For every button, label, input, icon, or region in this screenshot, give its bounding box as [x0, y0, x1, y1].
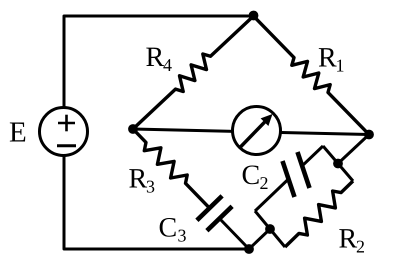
svg-text:2: 2: [260, 173, 269, 193]
galvanometer needle arrowhead: [261, 114, 273, 126]
node top: [249, 11, 259, 21]
svg-text:3: 3: [146, 177, 155, 197]
resistor R3: [133, 129, 210, 208]
capacitor C3 plate 2: [207, 206, 232, 230]
source E minus sign: [57, 144, 76, 147]
wire bottom node to parallel block: [249, 229, 270, 249]
galvanometer needle: [239, 121, 266, 148]
capacitor C3 plate 1: [197, 196, 222, 220]
resistor R2: [285, 181, 353, 247]
resistor R1: [254, 16, 370, 135]
wire top from source to top node: [64, 16, 254, 108]
junction parallel right: [333, 159, 343, 169]
source E plus sign: [58, 122, 75, 125]
resistor R4: [133, 16, 254, 129]
wire bottom from source to bottom node: [64, 156, 249, 250]
svg-text:R: R: [129, 164, 148, 195]
wire bridge middle horizontal: [133, 129, 369, 135]
svg-text:C: C: [242, 160, 261, 191]
wire parallel block to right node: [338, 135, 369, 164]
wire parallel block right side: [323, 146, 353, 181]
wire parallel block left side: [255, 211, 285, 247]
svg-text:R: R: [318, 43, 337, 74]
node right: [364, 130, 374, 140]
galvanometer circle: [233, 107, 281, 155]
node left: [128, 124, 138, 134]
svg-text:2: 2: [356, 237, 365, 257]
svg-text:1: 1: [336, 56, 345, 76]
capacitor C2 plate 2: [298, 152, 310, 188]
svg-text:R: R: [339, 224, 358, 255]
junction parallel left: [265, 224, 275, 234]
wire C2 left stub: [255, 179, 289, 211]
wire C2 right stub: [303, 146, 323, 165]
svg-text:E: E: [9, 117, 27, 149]
node bottom: [244, 244, 254, 254]
source E circle: [40, 108, 88, 156]
svg-text:C: C: [159, 213, 178, 244]
svg-text:4: 4: [163, 55, 172, 75]
svg-text:R: R: [146, 42, 165, 73]
capacitor C2 plate 1: [283, 161, 295, 197]
svg-text:3: 3: [178, 226, 187, 246]
wire C3 to bottom node: [220, 219, 250, 250]
